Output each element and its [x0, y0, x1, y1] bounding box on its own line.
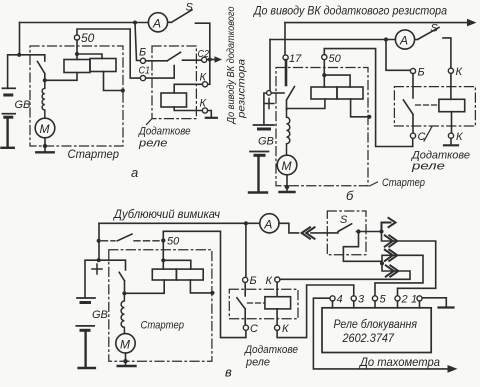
terminal K lower (circuit v) [275, 325, 280, 330]
terminal 2 [395, 296, 400, 301]
svg-text:Б: Б [418, 67, 425, 79]
node: junction above B [244, 221, 248, 225]
arrow up-right (continuation) [382, 218, 396, 232]
node: S line crosses C2 arrow [208, 57, 212, 61]
relay contact blade (dod. relay a) [146, 52, 202, 61]
plus sign [264, 99, 274, 109]
wire: contact to relay bottom [287, 99, 325, 109]
ground (terminal 1) [439, 306, 454, 308]
connector chevrons left-pointing [302, 227, 315, 238]
wire: left drop [98, 223, 100, 258]
svg-text:S: S [340, 214, 348, 226]
wire: relay right bottom to box edge [190, 280, 212, 293]
motor M (circuit b) [277, 155, 297, 175]
dod. relay dashed box (circuit a) [152, 46, 196, 119]
chevron row 3 [385, 250, 398, 261]
terminal B (circuit a) [140, 58, 145, 63]
svg-text:M: M [40, 122, 50, 136]
wire: S output down right side [196, 23, 210, 84]
svg-text:Додаткове: Додаткове [137, 126, 190, 138]
battery GB (circuit v) [76, 298, 95, 368]
svg-text:К: К [200, 72, 207, 84]
wire: top arrow bus [285, 22, 470, 24]
svg-text:С2: С2 [198, 48, 210, 60]
svg-text:5: 5 [380, 294, 387, 306]
starter dash-dot box (circuit b) [276, 68, 368, 186]
wire: down to battery + [264, 40, 270, 125]
svg-text:17: 17 [289, 53, 302, 65]
svg-text:3: 3 [358, 294, 365, 306]
node: at box edge [121, 88, 125, 92]
wire: 4 to tachometer line [313, 298, 449, 369]
ground (starter b) [280, 191, 295, 193]
node: on box bottom [285, 185, 289, 189]
relay blokuvannya box [322, 308, 431, 353]
wire: coil to K lower [276, 309, 278, 325]
terminal C (circuit v) [243, 325, 248, 330]
terminal C (circuit b) [410, 133, 415, 138]
relay coil (dod. relay b) [439, 99, 465, 111]
terminal B (circuit v) [243, 277, 248, 282]
node: battery junction [17, 53, 21, 57]
wire: left drop to battery junction [8, 23, 20, 89]
chevron row 2 [385, 235, 398, 246]
starter dash-dot box (circuit v) [109, 250, 212, 362]
svg-text:1: 1 [411, 294, 417, 306]
svg-text:Реле блокування: Реле блокування [334, 317, 418, 331]
svg-text:С1: С1 [139, 65, 151, 77]
terminal K upper (circuit b) [448, 68, 453, 73]
relay contact blade (dod. relay v) [237, 283, 245, 326]
wire: 50 down to relay [163, 241, 191, 270]
motor M (circuit v) [116, 334, 135, 353]
wire: contact to relay winding bottom [45, 73, 77, 81]
wire: contact to relay left bottom [124, 280, 164, 293]
svg-text:К: К [266, 275, 273, 287]
node: ammeter junction [384, 37, 388, 41]
svg-text:К: К [456, 66, 463, 78]
svg-text:реле: реле [411, 161, 445, 173]
terminal 4 (relay blokuvannya) [330, 296, 335, 301]
svg-text:S: S [186, 2, 194, 14]
wire: 50 down to relay [324, 60, 350, 87]
wire: ammeter feed [270, 39, 395, 41]
switch S blade (circuit v) [338, 224, 352, 232]
mechanical link dashes [248, 302, 265, 304]
terminal 17 (circuit b) [283, 55, 288, 60]
terminal 1 [417, 296, 422, 301]
svg-text:К: К [200, 98, 207, 110]
terminal K lower (circuit a) [202, 108, 207, 113]
terminal B (circuit b) [410, 68, 415, 73]
wire: K down to coil [276, 282, 278, 297]
wire: K down to relay coil [450, 73, 452, 99]
bypass loop under S [343, 234, 382, 264]
node: at box edge [367, 115, 371, 119]
wire: 1 to ground [422, 298, 446, 307]
node: contact junction [43, 78, 47, 82]
starter contact blade (circuit a) [38, 62, 45, 81]
arrowhead tachometer [448, 365, 458, 373]
node: on starter box bottom [43, 144, 47, 148]
arrow: C2 output to VK resistor [207, 59, 216, 61]
svg-text:S: S [431, 23, 439, 35]
relay coil (dod. relay a) [161, 93, 187, 107]
svg-text:2: 2 [401, 294, 408, 306]
wire: to S box [311, 232, 338, 234]
wire: K to relay coil [174, 84, 202, 93]
svg-text:А: А [152, 16, 161, 30]
relay winding blocks (circuit a) [64, 60, 90, 73]
mechanical link dashes [416, 104, 438, 106]
svg-text:До тахометра: До тахометра [358, 357, 440, 369]
wire: to battery and to contact [85, 260, 126, 297]
solenoid coil (circuit v) [121, 293, 124, 333]
wire: coil to K lower [451, 112, 453, 133]
wire: ammeter to connector [279, 223, 299, 233]
wire: motor to ground [44, 138, 46, 152]
wire: main top bus of circuit v [99, 222, 260, 224]
wire: 50 over to terminal C [163, 231, 246, 337]
node: battery junction (v) [97, 258, 101, 262]
switch S dash-dot box (circuit v) [327, 211, 366, 255]
ammeter A (circuit a) [148, 13, 167, 32]
chevron row 4 [386, 265, 399, 276]
terminal K upper (circuit a) [202, 82, 207, 87]
svg-text:M: M [120, 337, 130, 351]
node: terminal 50 (circuit v) [161, 238, 165, 242]
node: junction at ammeter feed [133, 21, 137, 25]
terminal 50 (circuit b) [322, 55, 327, 60]
terminal K upper (circuit v) [275, 277, 280, 282]
wire: 17 into starter contact (thick) [285, 60, 288, 85]
node: on box bottom [123, 359, 127, 363]
svg-text:реле: реле [138, 138, 168, 150]
wire: S output to K [443, 38, 451, 68]
svg-text:реле: реле [245, 357, 270, 369]
arrowhead [467, 19, 477, 27]
wire: row 2 to terminal 2 [382, 232, 436, 296]
terminal C1 (circuit a) [140, 76, 145, 81]
svg-text:Додаткове: Додаткове [243, 344, 298, 356]
wire: ammeter junction to terminal B [386, 40, 410, 71]
wire: 50 down to relay [77, 40, 102, 59]
wire: motor to ground [125, 353, 127, 365]
node: 50 branch [161, 258, 165, 262]
leader + label Starter (b) [370, 182, 378, 186]
svg-text:Стартер: Стартер [382, 177, 425, 189]
wire: 50 to C1 loop [77, 29, 140, 78]
svg-text:M: M [282, 159, 292, 173]
terminal 50 (circuit a) [74, 35, 79, 40]
leader line [147, 119, 153, 125]
svg-text:50: 50 [167, 236, 180, 248]
svg-text:А: А [399, 34, 408, 48]
starter contact blade (circuit v) [119, 272, 124, 293]
svg-text:2602.3747: 2602.3747 [342, 331, 396, 345]
svg-text:GB: GB [92, 309, 108, 321]
wire: C1 to fixed contact [146, 66, 175, 79]
node: junction right of box [379, 229, 383, 233]
wire: drop to ammeter junction toward terminal B [135, 23, 140, 61]
wire: motor to ground [286, 175, 288, 191]
ground (dod. relay a) [206, 117, 217, 119]
battery GB (circuit b) [249, 125, 274, 193]
ammeter A (circuit b) [395, 30, 414, 49]
relay coil (dod. relay v) [265, 297, 291, 309]
svg-text:Стартер: Стартер [68, 147, 120, 161]
battery GB (circuit a) [2, 88, 16, 148]
wire: K lower to ground [450, 138, 452, 144]
wire: K lower over to terminal 3 [277, 285, 354, 338]
motor M (circuit a) [35, 118, 55, 138]
terminal 5 [372, 296, 377, 301]
wire: 50 up-over to terminal C [324, 49, 412, 147]
terminal K lower (circuit b) [448, 133, 453, 138]
node: S contact [356, 229, 360, 233]
switch S (circuit b) [415, 28, 439, 40]
node: at box edge [210, 291, 214, 295]
solenoid coil (circuit a) [42, 80, 45, 118]
leader line [424, 127, 432, 142]
plus sign (v) [92, 264, 102, 274]
switch S (circuit a) [168, 10, 192, 22]
svg-text:Б: Б [250, 275, 257, 287]
node: contact junction [122, 291, 126, 295]
wire: K lower to ground [208, 111, 212, 118]
relay winding blocks (circuit v) [152, 269, 176, 280]
wire: coil bottom to K lower [174, 107, 202, 111]
wire: top bus of circuit a [20, 22, 149, 24]
starter contact blade (circuit b) [287, 87, 295, 111]
svg-text:б: б [346, 188, 354, 203]
svg-text:Дублюючий вимикач: Дублюючий вимикач [112, 209, 220, 221]
svg-text:GB: GB [258, 136, 274, 148]
wire: row 3 to terminal 5 [375, 255, 423, 295]
wire: drop to terminal 17 [284, 23, 286, 55]
svg-text:а: а [131, 165, 138, 180]
svg-text:К: К [282, 323, 289, 335]
svg-text:50: 50 [329, 53, 342, 65]
svg-text:GB: GB [15, 99, 31, 111]
node: lower junction [380, 261, 384, 265]
ground (starter a) [36, 151, 53, 153]
duplicate switch dashed line + blade [102, 240, 116, 242]
svg-text:К: К [456, 131, 463, 143]
svg-text:50: 50 [81, 31, 95, 45]
svg-text:До виводу ВК додаткового резис: До виводу ВК додаткового резистора [252, 6, 447, 18]
wire: row 4 to terminal K [280, 263, 410, 279]
starter dash-dot box (circuit a) [30, 46, 123, 146]
ground (dod. relay b) [444, 144, 458, 146]
svg-text:С: С [250, 323, 258, 335]
relay winding blocks (circuit b) [311, 87, 337, 99]
node: duplicate switch junction [97, 239, 101, 243]
wire: relay right bottom to box edge [104, 72, 123, 91]
dod. relay dashed box (circuit v) [229, 289, 298, 318]
dod. relay dashed box (circuit b) [394, 87, 475, 126]
svg-text:в: в [225, 365, 232, 380]
svg-text:А: А [263, 217, 272, 231]
relay contact blade (dod. relay b) [403, 74, 413, 134]
svg-text:Б: Б [139, 47, 146, 59]
node: 50 branch [322, 73, 326, 77]
solenoid coil (circuit b) [287, 110, 290, 155]
ammeter A (circuit v) [260, 214, 279, 233]
wire: contact to junction [357, 231, 382, 233]
terminal C2 (circuit a) [202, 57, 207, 62]
wire: relay right bottom to box edge [351, 99, 369, 117]
wire: B feed from bus [245, 223, 247, 277]
ground (starter v) [118, 365, 136, 367]
node: 50 branch [75, 52, 79, 56]
terminal 3 [351, 296, 356, 301]
svg-text:4: 4 [337, 294, 343, 306]
terminal + (circuit b) [267, 91, 272, 96]
svg-text:резистора: резистора [236, 59, 248, 119]
wire: battery + to starter contact [20, 55, 45, 61]
svg-text:Стартер: Стартер [141, 320, 185, 332]
